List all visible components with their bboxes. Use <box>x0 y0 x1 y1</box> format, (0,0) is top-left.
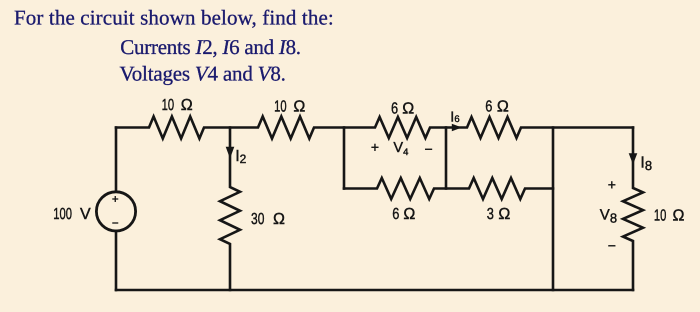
svg-text:10: 10 <box>274 99 287 116</box>
svg-text:100: 100 <box>53 206 72 223</box>
svg-text:Currents I2, I6 and I8.: Currents I2, I6 and I8. <box>120 35 300 59</box>
svg-text:3: 3 <box>487 206 494 223</box>
svg-text:+: + <box>112 192 119 206</box>
svg-text:+: + <box>371 139 379 155</box>
svg-text:V: V <box>80 206 91 223</box>
svg-text:Ω: Ω <box>293 99 305 116</box>
svg-text:6: 6 <box>391 101 398 118</box>
svg-text:+: + <box>608 176 616 192</box>
svg-text:For the circuit shown below, f: For the circuit shown below, find the: <box>14 6 334 30</box>
svg-text:Ω: Ω <box>497 98 509 115</box>
svg-text:Ω: Ω <box>403 206 415 223</box>
svg-text:−: − <box>425 141 433 157</box>
svg-text:30: 30 <box>251 211 264 228</box>
svg-text:6: 6 <box>485 98 492 115</box>
svg-text:6: 6 <box>392 206 399 223</box>
svg-text:Ω: Ω <box>498 206 510 223</box>
svg-text:Ω: Ω <box>181 97 193 114</box>
svg-text:10: 10 <box>654 208 667 225</box>
svg-text:I8: I8 <box>640 155 652 174</box>
svg-text:−: − <box>608 238 616 254</box>
svg-text:Ω: Ω <box>673 208 685 225</box>
svg-text:Voltages V4 and V8.: Voltages V4 and V8. <box>120 62 286 86</box>
svg-text:−: − <box>112 216 119 230</box>
svg-text:Ω: Ω <box>273 211 285 228</box>
svg-text:Ω: Ω <box>402 101 414 118</box>
svg-text:10: 10 <box>162 97 175 114</box>
